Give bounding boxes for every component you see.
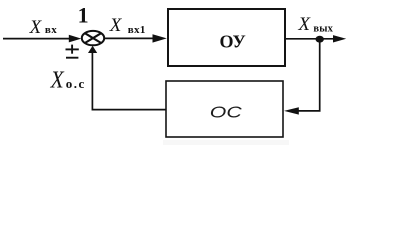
svg-text:вх1: вх1 [128, 24, 146, 36]
svg-text:ОС: ОС [210, 103, 242, 121]
svg-text:ОУ: ОУ [220, 32, 246, 52]
svg-text:X: X [109, 15, 123, 36]
svg-text:X: X [297, 14, 311, 35]
svg-text:X: X [29, 17, 43, 38]
svg-text:вх: вх [45, 24, 57, 36]
svg-text:1: 1 [78, 3, 89, 28]
svg-text:о.с: о.с [66, 76, 86, 91]
svg-text:вых: вых [313, 24, 333, 35]
svg-text:X: X [50, 66, 65, 92]
